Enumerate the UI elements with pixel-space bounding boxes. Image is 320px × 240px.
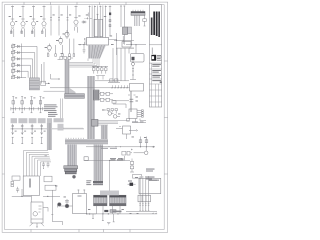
gray net label band row — [11, 118, 64, 123]
ribbon conductor lines — [90, 45, 105, 59]
connector cluster CN5 — [110, 195, 127, 206]
cap cluster x140 x146 — [131, 137, 155, 148]
J1 descending pins — [135, 15, 139, 26]
U5 top pin wires — [77, 190, 85, 194]
zone tick marks top — [24, 2, 126, 5]
relay block gray body — [29, 78, 39, 90]
band M short vertical — [101, 125, 108, 140]
connector cluster CN4 — [94, 195, 108, 206]
BOTTOM-CENTER BLOCK — [58, 190, 97, 215]
rotated title text line 1 — [151, 18, 153, 36]
gray fan into CN5 — [100, 191, 119, 196]
vertical wire right of ladder — [42, 62, 45, 83]
transistor Q5 — [74, 6, 78, 33]
ladder row 2 with diode — [11, 51, 35, 54]
wire net bottom-left — [12, 189, 31, 196]
transistor pair cluster — [102, 109, 120, 119]
RIGHT-BOTTOM REGION — [126, 122, 161, 214]
title block outline — [149, 5, 161, 107]
ladder fan-out nested verticals — [26, 46, 37, 78]
RIGHT OF MCU AREA — [44, 27, 147, 91]
transistor Q8 — [47, 44, 51, 52]
wire with inline resistor R5 — [50, 6, 52, 36]
jumper block dark striped component — [94, 90, 99, 100]
IC U4 box — [23, 176, 39, 196]
logo notch — [152, 56, 154, 59]
driver unit 3 — [29, 97, 34, 113]
diode chain x110 — [109, 6, 111, 36]
L wires to rail — [136, 119, 147, 123]
tiny text beside logo — [157, 55, 161, 61]
rail junction dots — [86, 213, 119, 214]
box with label — [133, 175, 142, 179]
hatch ticks on ribbon top — [66, 138, 84, 139]
rail drop stubs — [92, 214, 115, 222]
arrow right of rail — [151, 146, 155, 148]
small box on bundle — [127, 119, 130, 122]
wires rows y100-104 right — [112, 100, 129, 108]
resistor row R block mid — [92, 66, 108, 73]
ladder row 6 with diode — [11, 76, 26, 79]
transistor Q7 — [59, 36, 63, 44]
big box U6 — [139, 178, 161, 193]
rotated title text line 3 — [156, 12, 158, 37]
nested corner bus fanout wires — [24, 151, 52, 177]
revision table text rows — [152, 64, 161, 83]
small chain boxes — [130, 159, 134, 173]
right rail arrows — [152, 213, 157, 214]
U5 bottom right wire — [87, 213, 97, 215]
transistor Q9 filled — [65, 204, 69, 208]
transistor Q2 — [21, 6, 25, 38]
narrow ribbon band to fanout — [47, 123, 52, 150]
component box K1 — [122, 42, 131, 48]
transistor Q4 — [41, 6, 46, 38]
wire pair x121 x124.3 — [120, 6, 125, 28]
horizontal gray ribbon joining bands — [65, 139, 108, 144]
capacitor C12 — [16, 187, 19, 193]
tick pairs under 3-cell box — [139, 204, 149, 205]
bus corner bundle turning left — [84, 59, 99, 68]
rail 2 hatch ticks — [62, 128, 82, 129]
rail y87.8 dots — [111, 87, 127, 88]
CN2 stripes — [65, 95, 85, 97]
rail junction dots — [13, 108, 42, 109]
U6 label — [149, 180, 160, 181]
ladder row 5 with diode — [11, 70, 28, 73]
small IC box right — [123, 126, 131, 134]
driver unit 2 — [20, 97, 25, 113]
connector box with pins — [129, 109, 143, 119]
ladder row 4 with diode — [11, 64, 30, 67]
IC U1 left pin stubs with caps — [84, 38, 86, 44]
transistor Q3 — [31, 6, 35, 38]
ladder row 1 with diode — [11, 45, 37, 48]
logo black box — [151, 55, 156, 61]
side box right of relay — [41, 81, 46, 85]
dark component D5 — [130, 183, 134, 186]
oscillator inner lines — [31, 206, 43, 219]
net labels row — [132, 122, 144, 123]
IC U1 top pin wires — [89, 6, 105, 38]
long gray band L down left-center — [87, 76, 95, 145]
dark bar on rail — [113, 211, 122, 213]
gray patch above ribbon turn — [58, 124, 64, 131]
tiny text block right of rail — [44, 104, 58, 116]
connector CN2 footprint — [65, 94, 85, 99]
resistor row under ribbon — [58, 57, 74, 60]
transistor Q10 filled — [58, 203, 62, 207]
mid rail y80.8 — [95, 80, 129, 82]
bottom rail wire — [87, 213, 158, 215]
extra stub wires above rail — [96, 76, 105, 80]
bus ribbon from IC bottom — [88, 45, 106, 59]
RIGHT COLUMN COMPONENTS — [128, 61, 146, 123]
vertical ribbon conductors — [66, 60, 69, 94]
vertical from rail — [109, 161, 111, 191]
verticals dropping to mid rail — [113, 48, 125, 81]
capacitor pair C10 C11 — [42, 162, 50, 169]
box pair right of U4 — [44, 176, 52, 182]
rotated title text line 2 — [153, 12, 155, 36]
band L termination dark bars — [93, 181, 103, 183]
scattered reference designator text specks — [9, 15, 157, 214]
small box on left of rail — [84, 157, 88, 161]
ground symbol marks — [107, 223, 110, 225]
zone tick marks left — [2, 61, 4, 174]
driver unit 1 — [11, 97, 16, 113]
J1 dark top edge — [131, 12, 145, 13]
capacitor C2 — [83, 50, 86, 54]
wires row B to resistors — [48, 39, 74, 54]
diode plates chain — [128, 91, 136, 112]
transistor under CN3 — [72, 175, 75, 178]
D5 wires — [128, 181, 136, 185]
node rail with dots right of row B — [78, 45, 86, 49]
plus test points — [85, 13, 92, 20]
lamp unit 3 — [31, 124, 34, 144]
LADDER BLOCK (opto/diode rows) — [11, 44, 50, 90]
rail junction dots — [109, 160, 110, 161]
MID SHEET EXTRA WIRES — [84, 151, 130, 190]
rotated title text line 4 — [158, 12, 160, 38]
diode D1 — [82, 21, 87, 24]
gray component on rail — [110, 210, 116, 213]
J1 right branch with box — [143, 15, 147, 26]
lamp unit 1 — [11, 124, 14, 144]
CENTRAL MCU AND GRAY BUS RIBBONS — [47, 6, 131, 186]
resistor row under cluster — [47, 54, 49, 57]
tiny squares — [11, 181, 14, 184]
wire rail y160.5 — [85, 160, 131, 162]
oscillator X1 body — [31, 202, 43, 223]
TOP-RIGHT CONNECTOR J1 — [131, 10, 146, 26]
bottom right rail ticks — [126, 210, 157, 212]
title section divider 1 — [149, 44, 161, 46]
top label ticks above IC pins — [89, 5, 91, 8]
tiny text row above rail — [110, 157, 122, 160]
wire U4 to oscillator — [31, 196, 33, 203]
J1 body bar — [131, 12, 145, 16]
MID-RIGHT SMALL CLUSTERS — [98, 92, 131, 139]
corner bundle to vertical ribbon — [67, 63, 85, 68]
revision table lines — [149, 63, 161, 107]
wire bundle from box to right — [98, 121, 129, 126]
relay box right — [130, 84, 144, 92]
IC U1 body — [87, 38, 109, 46]
tiny text row under rail — [101, 147, 117, 150]
small 3-cell box — [138, 195, 151, 202]
sheet inner border — [5, 5, 165, 230]
cluster pins to rail — [97, 206, 121, 214]
tiny text under rail — [111, 159, 124, 160]
DRIVER RAIL 1 (y=109) — [11, 97, 63, 119]
vertical gray ribbon to CN2 — [65, 60, 76, 94]
two-row mini boxes cluster — [98, 92, 113, 101]
BOTTOM RAIL AND CONNECTOR PAIR — [86, 191, 157, 225]
wire y196 extension — [43, 195, 60, 197]
oscillator inner circle — [33, 212, 37, 216]
long rail under ribbon — [86, 146, 131, 148]
oscillator legs — [30, 223, 45, 227]
BOTTOM-LEFT FANOUT AND OSC — [11, 151, 63, 228]
wires into small IC — [116, 129, 127, 140]
sheet outer border — [2, 2, 168, 232]
IC U1 right output wire — [109, 39, 118, 41]
small cluster above rail — [108, 79, 120, 83]
TOP ROW A : transistor array — [10, 6, 106, 38]
wide vertical ribbon to CN3 — [67, 144, 77, 165]
DRIVER RAIL 2 (y=129) — [11, 118, 85, 144]
title small text upper section 2 — [152, 48, 153, 55]
lamp unit 4 — [40, 124, 43, 144]
gray label text right — [146, 169, 155, 180]
U6 vertical pin wires — [140, 176, 149, 211]
wire mesh right of IC — [114, 33, 134, 55]
wires from box pair to node row — [125, 34, 147, 54]
tiny text block left of band termination — [86, 180, 91, 185]
band L conductors — [89, 76, 103, 183]
transistor Q1 — [10, 6, 14, 38]
polarized cap C20 — [131, 147, 149, 155]
TOP-MIDDLE COMPONENTS — [85, 6, 126, 37]
zone tick marks right — [164, 61, 168, 174]
long vertical wire x52 — [51, 190, 62, 225]
driver unit 4 — [38, 97, 43, 113]
connector CN3 footprint stack — [64, 166, 78, 174]
zone tick marks bottom — [31, 229, 130, 232]
ROW B : second transistor cluster — [47, 30, 86, 56]
rail wire 2 — [11, 128, 85, 130]
rail 2 junction dots — [12, 128, 42, 129]
ladder vertical bus left — [12, 44, 14, 79]
small box left — [12, 176, 20, 180]
K2 inner dark bit — [132, 57, 135, 60]
transistor Q6 — [65, 30, 69, 39]
U5 label — [78, 196, 82, 197]
wire with inline resistor R6 — [58, 6, 60, 36]
arrow wire — [129, 130, 138, 132]
title section divider 2 — [149, 62, 161, 64]
rail wire — [11, 108, 49, 110]
L-wire mid-left — [51, 74, 60, 80]
wire from side box — [45, 82, 50, 84]
U2 inner gray stripe — [98, 19, 100, 36]
K2 feed wire — [129, 48, 134, 53]
ladder row 3 with diode — [11, 58, 32, 61]
TITLE BLOCK — [149, 5, 161, 108]
Q9 wires — [58, 199, 73, 208]
wire with inline resistor R7 — [67, 6, 69, 36]
rounded box K2 — [131, 54, 145, 63]
small IC U2 — [94, 19, 103, 36]
dark component on rail — [104, 210, 108, 212]
U2 top wire — [97, 14, 99, 19]
IC U5 box — [73, 194, 87, 214]
relay block stripes — [29, 80, 39, 88]
wire into CN2 from left — [44, 90, 65, 92]
component box on band L — [92, 120, 99, 127]
gray component box pair below wire pair — [123, 27, 128, 35]
ladder vertical bus mid — [20, 44, 22, 79]
diode chain right x133 — [130, 61, 136, 80]
mid rail y87.8 — [50, 87, 130, 89]
lamp unit 2 — [21, 124, 24, 144]
wire stub right — [43, 208, 48, 212]
U4 vertical label — [29, 179, 31, 188]
label pair boxes top-right of rail — [122, 151, 130, 160]
J1 top pin ticks — [133, 10, 143, 12]
